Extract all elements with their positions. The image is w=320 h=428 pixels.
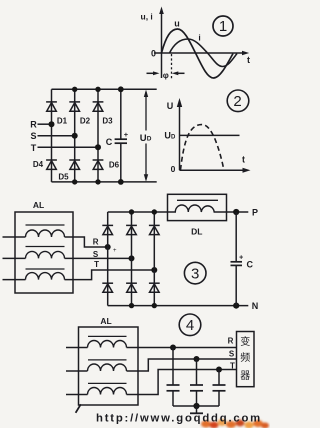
node bottom rail leg2 xyxy=(72,179,77,184)
winding 3 fig4 xyxy=(88,383,127,394)
svg-text:+: + xyxy=(113,248,117,254)
svg-text:http://www.goqddq.com: http://www.goqddq.com xyxy=(96,413,262,425)
phase dashed tick xyxy=(171,54,173,79)
svg-text:AL: AL xyxy=(100,316,111,326)
axis Y (u,i axis) xyxy=(159,7,164,79)
Ud level line xyxy=(180,134,240,136)
dimension arrow Ud xyxy=(144,90,148,182)
wire T output fig3 xyxy=(65,270,155,280)
node P xyxy=(233,209,239,215)
axis X (t axis) xyxy=(154,51,249,55)
svg-text:R: R xyxy=(228,337,234,346)
svg-text:t: t xyxy=(247,55,250,65)
svg-text:+: + xyxy=(239,255,243,262)
wire S output fig3 xyxy=(65,257,132,259)
svg-text:T: T xyxy=(230,361,235,370)
node ground rail xyxy=(193,403,199,409)
bottom rail (-) xyxy=(52,181,157,183)
diode bottom2 fig3 xyxy=(126,283,137,292)
bridge leg 3 fig3 xyxy=(153,212,155,306)
top rail (+) xyxy=(52,88,157,90)
ground xyxy=(190,406,203,413)
diode bottom1 fig3 xyxy=(102,283,113,292)
inductor DL core bar xyxy=(177,199,218,201)
svg-text:u: u xyxy=(174,19,180,29)
circle number 1 xyxy=(213,16,233,36)
node bottom rail leg3 fig3 xyxy=(152,303,157,308)
svg-text:AL: AL xyxy=(33,200,44,210)
axis U (fig2 plot) xyxy=(177,98,182,170)
top rail fig3 xyxy=(108,211,168,213)
node S-leg2 xyxy=(72,133,78,139)
label Ud (output) xyxy=(140,133,152,144)
node top rail leg3 xyxy=(95,87,100,92)
wire input 2 fig3 xyxy=(3,257,26,259)
node cap3-T xyxy=(216,367,222,373)
axis t (fig2 plot) xyxy=(180,168,251,173)
wire P output xyxy=(227,211,249,213)
node cap2-S xyxy=(194,356,200,362)
dashed rectified hump xyxy=(181,125,224,170)
svg-text:R: R xyxy=(93,238,99,247)
diode bottom3 fig3 xyxy=(149,283,160,292)
svg-text:S: S xyxy=(93,250,99,259)
winding 1 fig3 xyxy=(26,225,65,237)
wire R output fig3 xyxy=(65,237,108,247)
node bottom rail leg2 fig3 xyxy=(129,303,134,308)
svg-text:P: P xyxy=(252,208,258,218)
wire R input fig2 xyxy=(38,123,52,125)
node R-leg1 xyxy=(49,121,55,127)
capacitor C fig2 xyxy=(115,89,127,182)
svg-text:D1: D1 xyxy=(57,117,68,126)
node T fig3 xyxy=(151,267,157,273)
bottom rail fig4 xyxy=(173,405,219,407)
circle number 3 xyxy=(184,262,206,284)
phase arrow right xyxy=(172,71,185,75)
svg-text:频: 频 xyxy=(240,351,250,364)
svg-text:U: U xyxy=(164,131,171,141)
slash mark fig4 xyxy=(76,404,81,413)
svg-text:器: 器 xyxy=(240,370,250,382)
node S fig3 xyxy=(129,255,135,261)
node R fig3 xyxy=(105,244,111,250)
svg-text:i: i xyxy=(198,33,200,43)
svg-text:DL: DL xyxy=(191,226,202,236)
svg-text:+: + xyxy=(124,130,129,139)
svg-text:φ: φ xyxy=(163,70,169,80)
svg-text:D3: D3 xyxy=(102,117,113,126)
capacitor 1 fig4 xyxy=(167,348,180,407)
node T-leg3 xyxy=(95,144,101,150)
svg-text:N: N xyxy=(252,301,259,311)
svg-text:t: t xyxy=(242,154,245,164)
phase arrow left xyxy=(147,71,160,75)
svg-text:T: T xyxy=(94,260,99,269)
label Ud on axis xyxy=(164,131,176,141)
svg-text:变: 变 xyxy=(240,335,250,348)
diode D1 xyxy=(46,102,57,111)
bridge leg 2 fig3 xyxy=(131,212,133,306)
circle number 2 xyxy=(227,90,249,112)
diode D4 xyxy=(46,160,57,169)
svg-text:D: D xyxy=(171,134,176,140)
winding 3 fig3 xyxy=(26,269,65,280)
leg 2 wire xyxy=(74,89,76,182)
capacitor C fig3 xyxy=(231,212,243,306)
svg-text:D2: D2 xyxy=(80,117,91,126)
svg-text:D5: D5 xyxy=(58,173,69,182)
inductor DL coil xyxy=(168,205,227,212)
svg-text:C: C xyxy=(247,260,254,270)
svg-text:C: C xyxy=(106,137,113,147)
leg 1 wire xyxy=(51,89,53,182)
svg-text:0: 0 xyxy=(151,48,156,58)
wire input 1 fig3 xyxy=(3,236,26,238)
node bottom rail leg3 xyxy=(95,179,100,184)
svg-text:S: S xyxy=(229,350,235,359)
winding 2 fig3 xyxy=(26,247,65,259)
curve u xyxy=(162,29,234,78)
node top rail cap xyxy=(118,86,124,92)
diode top1 fig3 xyxy=(102,225,113,234)
node N xyxy=(233,303,239,309)
wire T fig4 xyxy=(127,370,237,395)
diode D3 xyxy=(93,102,104,111)
wire stub input 2 fig4 xyxy=(66,370,88,372)
capacitor 3 fig4 xyxy=(213,370,226,407)
svg-text:0: 0 xyxy=(171,164,176,174)
bottom rail fig3 (N rail) xyxy=(108,305,249,307)
diode D5 xyxy=(69,160,80,169)
node top rail leg2 xyxy=(72,87,77,92)
inductor DL box xyxy=(168,194,227,220)
svg-text:4: 4 xyxy=(186,317,194,334)
wire stub input 1 fig4 xyxy=(66,347,88,349)
circle number 4 xyxy=(179,314,201,336)
svg-text:R: R xyxy=(30,119,37,129)
diode D2 xyxy=(69,102,80,111)
capacitor 2 fig4 xyxy=(190,359,203,406)
svg-text:2: 2 xyxy=(233,93,241,110)
svg-text:u, i: u, i xyxy=(141,12,153,22)
reactor box AL fig4 xyxy=(79,327,139,405)
watermark flames xyxy=(201,419,269,428)
wire input 3 fig3 xyxy=(3,279,26,281)
diode top3 fig3 xyxy=(149,225,160,234)
curve i xyxy=(170,39,238,67)
wire R fig4 xyxy=(127,347,237,349)
inverter box (bian pin qi) xyxy=(237,332,255,387)
node cap1-R xyxy=(170,345,176,351)
wire T input fig2 xyxy=(38,146,99,148)
svg-text:S: S xyxy=(30,131,36,141)
wire stub input 3 fig4 xyxy=(66,394,88,396)
label inverter text xyxy=(240,335,250,382)
node top rail leg3 fig3 xyxy=(152,209,157,214)
reactor box AL xyxy=(15,212,73,293)
svg-text:1: 1 xyxy=(219,18,227,35)
wire S input fig2 xyxy=(38,135,75,137)
diode D6 xyxy=(93,160,104,169)
diode top2 fig3 xyxy=(126,225,137,234)
svg-text:D: D xyxy=(147,136,152,143)
svg-text:T: T xyxy=(31,143,37,153)
svg-text:3: 3 xyxy=(191,265,199,282)
wire S fig4 xyxy=(127,359,237,371)
node bottom rail cap xyxy=(118,179,124,185)
svg-text:D4: D4 xyxy=(33,160,44,169)
svg-text:U: U xyxy=(167,101,174,111)
leg 3 wire xyxy=(97,89,99,182)
node top rail leg2 fig3 xyxy=(129,209,134,214)
winding 1 fig4 xyxy=(88,336,127,347)
bridge leg 1 fig3 xyxy=(107,212,109,306)
winding 2 fig4 xyxy=(88,360,127,371)
svg-text:U: U xyxy=(140,133,147,144)
svg-text:D6: D6 xyxy=(109,161,120,170)
